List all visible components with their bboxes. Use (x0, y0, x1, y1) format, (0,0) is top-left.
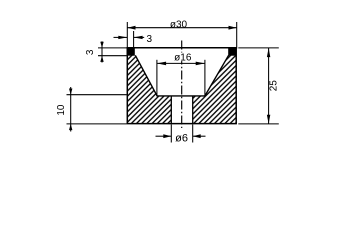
svg-text:ø16: ø16 (174, 52, 192, 63)
svg-text:3: 3 (147, 34, 153, 45)
svg-text:10: 10 (56, 104, 67, 116)
svg-text:ø30: ø30 (170, 19, 188, 30)
svg-text:25: 25 (269, 80, 280, 92)
svg-text:ø6: ø6 (175, 133, 188, 145)
svg-text:3: 3 (85, 49, 96, 55)
